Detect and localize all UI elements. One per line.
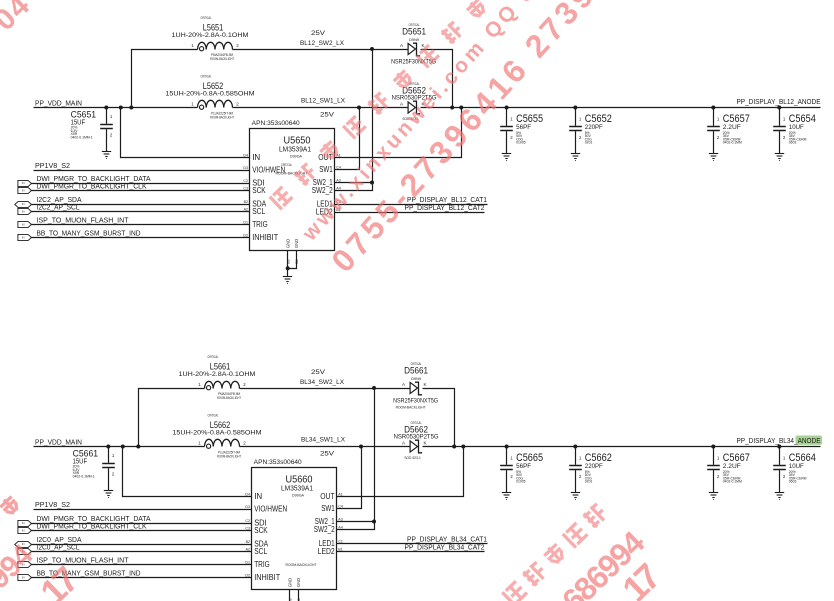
wire net PP_DISPLAY_BL34_CAT1 <box>337 543 488 545</box>
svg-text:SCK: SCK <box>252 186 266 195</box>
svg-text:2: 2 <box>243 382 246 387</box>
svg-text:B1: B1 <box>338 548 342 552</box>
off-page connector I2C2_AP_SDA <box>15 201 32 207</box>
svg-text:IN: IN <box>22 189 25 193</box>
svg-text:15UH-20%-0.8A-0.585OHM: 15UH-20%-0.8A-0.585OHM <box>172 430 261 437</box>
junction <box>505 106 509 110</box>
svg-text:D1: D1 <box>245 561 250 565</box>
junction <box>119 106 123 110</box>
svg-text:17: 17 <box>32 559 86 601</box>
wire riser to BL34_SW2_LX <box>139 389 205 447</box>
diode D5651 <box>408 43 415 54</box>
svg-text:D3: D3 <box>243 166 248 170</box>
svg-text:C5651: C5651 <box>71 110 97 120</box>
svg-text:A2: A2 <box>246 548 250 552</box>
capacitor C5661 <box>102 447 115 491</box>
svg-text:2: 2 <box>510 474 513 479</box>
wire net PP_DISPLAY_BL12_CAT2 <box>335 212 485 214</box>
wire GND pins <box>287 251 289 277</box>
inductor L5662 <box>205 439 240 446</box>
svg-text:IN: IN <box>252 153 260 162</box>
junction <box>372 386 376 390</box>
svg-text:CRITICAL: CRITICAL <box>208 414 219 418</box>
svg-text:2: 2 <box>783 474 786 479</box>
svg-text:PP_DISPLAY_BL34_CAT2: PP_DISPLAY_BL34_CAT2 <box>405 545 485 552</box>
junction <box>461 445 465 449</box>
wire SW1 riser <box>335 108 360 170</box>
ground <box>571 154 580 161</box>
svg-text:C5661: C5661 <box>73 449 99 459</box>
svg-text:IN: IN <box>22 202 25 206</box>
svg-text:25V: 25V <box>311 30 326 37</box>
svg-text:C4: C4 <box>336 166 341 170</box>
svg-text:INHIBIT: INHIBIT <box>252 233 278 242</box>
svg-text:TRIG: TRIG <box>254 560 270 569</box>
svg-text:01005: 01005 <box>516 480 526 484</box>
junction <box>106 445 110 449</box>
svg-text:2: 2 <box>717 135 720 140</box>
svg-text:D99GA: D99GA <box>292 494 305 498</box>
junction <box>452 445 456 449</box>
svg-text:1: 1 <box>510 455 513 460</box>
wire IN feed <box>123 447 252 497</box>
svg-text:0402-0.1MM: 0402-0.1MM <box>723 141 742 145</box>
svg-text:C3: C3 <box>243 187 248 191</box>
wire net DWI_PMGR_TO_BACKLIGHT_CLK <box>32 530 252 532</box>
inductor L5651 <box>198 42 233 49</box>
svg-text:25V: 25V <box>311 369 326 376</box>
ground <box>283 277 292 284</box>
svg-text:D9N9: D9N9 <box>409 38 419 42</box>
wire riser to BL12_SW2_LX <box>132 50 198 108</box>
svg-text:0402-0.1MM-1: 0402-0.1MM-1 <box>73 475 95 479</box>
off-page connector DWI_PMGR_TO_BACKLIGHT_DATA <box>18 180 32 186</box>
svg-text:GND: GND <box>294 239 299 248</box>
svg-text:1: 1 <box>783 455 786 460</box>
watermark bottom-center chinese <box>482 600 507 601</box>
svg-text:0603: 0603 <box>789 141 797 145</box>
wire SW2 pins drop <box>335 50 373 191</box>
svg-text:ISP_TO_MUON_FLASH_INT: ISP_TO_MUON_FLASH_INT <box>37 215 130 224</box>
svg-text:BL34_SW1_LX: BL34_SW1_LX <box>301 437 345 444</box>
wire BL34_SW2_LX rail <box>240 388 411 390</box>
svg-text:1: 1 <box>198 441 201 446</box>
svg-text:IN: IN <box>254 492 262 501</box>
svg-text:A2: A2 <box>244 208 248 212</box>
svg-text:C4: C4 <box>338 505 343 509</box>
off-page connector DWI_PMGR_TO_BACKLIGHT_CLK <box>18 187 32 193</box>
junction <box>104 106 108 110</box>
svg-text:SW2_2: SW2_2 <box>314 525 335 534</box>
junction <box>505 445 509 449</box>
wire net ISP_TO_MUON_FLASH_INT <box>32 224 250 226</box>
svg-text:1: 1 <box>510 116 513 121</box>
svg-text:D5661: D5661 <box>404 366 428 376</box>
svg-text:I2C0_AP_SCL: I2C0_AP_SCL <box>37 542 80 551</box>
svg-text:PP1V8_S2: PP1V8_S2 <box>35 161 70 170</box>
wire net DWI_PMGR_TO_BACKLIGHT_DATA <box>32 183 250 185</box>
wire OUT riser <box>335 108 462 158</box>
svg-text:2: 2 <box>579 474 582 479</box>
ground <box>102 152 111 159</box>
svg-text:1: 1 <box>717 116 720 121</box>
svg-text:PP_DISPLAY_BL34_ANODE: PP_DISPLAY_BL34_ANODE <box>737 438 821 445</box>
svg-text:ROOM-BACKLIGHT: ROOM-BACKLIGHT <box>210 57 234 61</box>
svg-text:2: 2 <box>579 135 582 140</box>
svg-text:C3: C3 <box>245 527 250 531</box>
off-page connector ISP_TO_MUON_FLASH_INT <box>18 561 32 567</box>
svg-text:BL12_SW2_LX: BL12_SW2_LX <box>300 40 344 47</box>
diode D5662 <box>410 441 417 452</box>
svg-text:SCL: SCL <box>252 207 265 216</box>
svg-text:D4: D4 <box>245 493 250 497</box>
watermark chinese line top band <box>270 186 294 210</box>
off-page connector BB_TO_MANY_GSM_BURST_IND <box>18 234 32 240</box>
off-page connector DWI_PMGR_TO_BACKLIGHT_DATA <box>18 520 32 526</box>
svg-text:OUT: OUT <box>320 492 335 501</box>
wire net I2C0_AP_SDA <box>32 544 252 546</box>
junction <box>573 445 577 449</box>
svg-text:PP_DISPLAY_BL12_ANODE: PP_DISPLAY_BL12_ANODE <box>737 99 821 106</box>
svg-text:B2: B2 <box>246 540 250 544</box>
highlight ANODE <box>796 436 823 445</box>
svg-text:IN: IN <box>22 181 25 185</box>
svg-text:2: 2 <box>783 135 786 140</box>
svg-text:IN: IN <box>22 236 25 240</box>
watermark bottom-left chinese <box>0 512 1 537</box>
svg-text:2: 2 <box>243 441 246 446</box>
svg-text:D3: D3 <box>245 505 250 509</box>
capacitor C5657 <box>707 108 720 154</box>
wire net I2C2_AP_SCL <box>32 211 250 213</box>
diode D5652 <box>408 102 415 113</box>
wire net PP_DISPLAY_BL34_CAT2 <box>337 551 485 553</box>
svg-text:SCL: SCL <box>254 547 267 556</box>
svg-text:K: K <box>424 382 428 387</box>
inductor L5652 <box>198 100 233 107</box>
svg-text:2: 2 <box>112 472 115 477</box>
svg-text:IN: IN <box>22 521 25 525</box>
ground <box>775 493 784 500</box>
svg-text:6994: 6994 <box>0 538 40 601</box>
svg-text:ROOM-BACKLIGHT: ROOM-BACKLIGHT <box>286 563 318 567</box>
junction <box>711 445 715 449</box>
junction <box>777 445 781 449</box>
svg-text:01005: 01005 <box>516 141 526 145</box>
svg-text:25V: 25V <box>320 112 335 119</box>
svg-text:DWI_PMGR_TO_BACKLIGHT_CLK: DWI_PMGR_TO_BACKLIGHT_CLK <box>37 181 147 190</box>
svg-text:SCK: SCK <box>254 526 268 535</box>
svg-text:SW1: SW1 <box>319 165 333 174</box>
svg-text:A4: A4 <box>338 526 342 530</box>
svg-text:2: 2 <box>510 135 513 140</box>
svg-text:1: 1 <box>112 453 115 458</box>
junction <box>573 106 577 110</box>
svg-text:L5652: L5652 <box>203 81 224 91</box>
junction <box>450 106 454 110</box>
wire net I2C0_AP_SCL <box>32 551 252 553</box>
svg-text:BB_TO_MANY_GSM_BURST_IND: BB_TO_MANY_GSM_BURST_IND <box>37 228 141 237</box>
svg-text:1: 1 <box>110 114 113 119</box>
off-page connector BB_TO_MANY_GSM_BURST_IND <box>18 574 32 580</box>
svg-text:IN: IN <box>22 223 25 227</box>
svg-text:0201: 0201 <box>585 141 593 145</box>
ground <box>502 493 511 500</box>
svg-text:ROOM-BACKLIGHT: ROOM-BACKLIGHT <box>396 406 426 410</box>
wire net BB_TO_MANY_GSM_BURST_IND <box>32 577 252 579</box>
svg-text:ROOM-BACKLIGHT: ROOM-BACKLIGHT <box>217 396 241 400</box>
svg-text:1: 1 <box>191 102 194 107</box>
svg-text:I2C2_AP_SCL: I2C2_AP_SCL <box>37 202 80 211</box>
svg-text:25V: 25V <box>320 451 335 458</box>
svg-text:D1: D1 <box>243 221 248 225</box>
capacitor C5664 <box>773 447 786 493</box>
svg-text:ROOM-BACKLIGHT: ROOM-BACKLIGHT <box>217 454 241 458</box>
svg-text:DWI_PMGR_TO_BACKLIGHT_CLK: DWI_PMGR_TO_BACKLIGHT_CLK <box>37 521 147 530</box>
wire GND pins <box>289 590 291 601</box>
wire net DWI_PMGR_TO_BACKLIGHT_CLK <box>32 190 250 192</box>
off-page connector ISP_TO_MUON_FLASH_INT <box>18 221 32 227</box>
svg-text:PP_VDD_MAIN: PP_VDD_MAIN <box>35 98 82 107</box>
svg-text:B2: B2 <box>244 200 248 204</box>
off-page connector I2C0_AP_SDA <box>15 541 32 547</box>
svg-text:1: 1 <box>717 455 720 460</box>
capacitor C5654 <box>773 108 786 154</box>
svg-text:A: A <box>400 43 404 48</box>
svg-text:D2: D2 <box>245 574 250 578</box>
svg-text:D5651: D5651 <box>402 27 426 37</box>
ground <box>709 154 718 161</box>
diode D5661 <box>410 382 417 393</box>
svg-text:1: 1 <box>783 116 786 121</box>
svg-text:K: K <box>424 441 428 446</box>
svg-text:SW1: SW1 <box>321 504 335 513</box>
svg-text:L5661: L5661 <box>210 362 231 372</box>
svg-text:A1: A1 <box>338 493 342 497</box>
off-page connector I2C2_AP_SCL <box>18 208 32 214</box>
capacitor C5655 <box>500 108 513 154</box>
svg-text:2: 2 <box>236 102 239 107</box>
svg-text:BL34_SW2_LX: BL34_SW2_LX <box>300 379 344 386</box>
svg-text:SOD-923-1: SOD-923-1 <box>404 456 421 460</box>
svg-text:PP_DISPLAY_BL34_CAT1: PP_DISPLAY_BL34_CAT1 <box>407 537 487 544</box>
junction <box>372 520 376 524</box>
svg-text:1UH-20%-2.8A-0.1OHM: 1UH-20%-2.8A-0.1OHM <box>172 32 249 39</box>
svg-text:NSR25F30NXT5G: NSR25F30NXT5G <box>393 398 438 405</box>
svg-text:LM3539A1: LM3539A1 <box>281 484 313 493</box>
svg-text:D4: D4 <box>243 154 248 158</box>
junction <box>359 445 363 449</box>
junction <box>357 106 361 110</box>
svg-text:A: A <box>402 441 406 446</box>
capacitor C5662 <box>569 447 582 493</box>
ground <box>775 154 784 161</box>
svg-text:CRITICAL: CRITICAL <box>208 355 219 359</box>
wire net DWI_PMGR_TO_BACKLIGHT_DATA <box>32 523 252 525</box>
wire net PP1V8_S2 <box>34 509 252 511</box>
ground <box>709 493 718 500</box>
wire PP_VDD_MAIN rail <box>34 107 198 109</box>
svg-text:A: A <box>400 102 404 107</box>
wire net ISP_TO_MUON_FLASH_INT <box>32 564 252 566</box>
svg-text:1: 1 <box>191 43 194 48</box>
svg-text:0402-0.1MM-1: 0402-0.1MM-1 <box>71 136 93 140</box>
svg-text:GND: GND <box>296 578 301 587</box>
junction <box>121 445 125 449</box>
svg-text:A: A <box>402 382 406 387</box>
junction <box>129 106 133 110</box>
wire net BB_TO_MANY_GSM_BURST_IND <box>32 237 250 239</box>
wire diode D5661 cathode to BL34_SW1_LX <box>423 389 455 447</box>
svg-text:1: 1 <box>579 116 582 121</box>
wire OUT riser <box>337 447 464 497</box>
capacitor C5652 <box>569 108 582 154</box>
svg-text:VIO/HWEN: VIO/HWEN <box>254 505 287 514</box>
svg-text:GND: GND <box>286 239 291 248</box>
svg-text:1: 1 <box>198 382 201 387</box>
svg-text:0402-0.1MM: 0402-0.1MM <box>723 480 742 484</box>
svg-text:C2: C2 <box>245 519 250 523</box>
svg-text:PP_VDD_MAIN: PP_VDD_MAIN <box>35 437 82 446</box>
svg-text:CRITICAL: CRITICAL <box>201 16 212 20</box>
svg-text:GND: GND <box>288 578 293 587</box>
svg-text:LM3539A1: LM3539A1 <box>279 145 311 154</box>
svg-text:D2: D2 <box>243 234 248 238</box>
svg-text:0201: 0201 <box>585 480 593 484</box>
inductor L5661 <box>205 381 240 388</box>
svg-text:C2: C2 <box>243 179 248 183</box>
svg-text:2: 2 <box>110 133 113 138</box>
svg-text:D99GA: D99GA <box>290 155 303 159</box>
off-page connector I2C0_AP_SCL <box>18 548 32 554</box>
junction <box>777 106 781 110</box>
svg-text:CRITICAL: CRITICAL <box>201 75 212 79</box>
svg-text:NSR0530P2T5G: NSR0530P2T5G <box>394 434 439 441</box>
svg-text:TRIG: TRIG <box>252 220 268 229</box>
capacitor C5651 <box>100 108 113 152</box>
svg-text:APN:353s00640: APN:353s00640 <box>254 459 302 466</box>
svg-text:2: 2 <box>236 43 239 48</box>
junction <box>370 47 374 51</box>
capacitor C5665 <box>500 447 513 493</box>
svg-text:IN: IN <box>22 529 25 533</box>
op-amp U5650 (LED driver IC LM3539A1) <box>250 129 335 251</box>
svg-text:ROOM-BACKLIGHT: ROOM-BACKLIGHT <box>210 115 234 119</box>
junction <box>711 106 715 110</box>
svg-text:1UH-20%-2.8A-0.1OHM: 1UH-20%-2.8A-0.1OHM <box>179 371 256 378</box>
wire net I2C2_AP_SDA <box>32 204 250 206</box>
wire SW1 riser <box>337 447 362 509</box>
op-amp U5660 (LED driver IC LM3539A1) <box>252 468 337 590</box>
junction <box>459 106 463 110</box>
svg-text:LED2: LED2 <box>318 547 335 556</box>
wire net PP1V8_S2 <box>34 170 250 172</box>
svg-text:C1: C1 <box>338 540 343 544</box>
svg-text:VIO/HWEN: VIO/HWEN <box>252 166 285 175</box>
svg-text:ISP_TO_MUON_FLASH_INT: ISP_TO_MUON_FLASH_INT <box>37 555 130 564</box>
svg-text:2: 2 <box>717 474 720 479</box>
svg-text:0603: 0603 <box>789 480 797 484</box>
svg-text:BL12_SW1_LX: BL12_SW1_LX <box>301 98 345 105</box>
ground <box>502 154 511 161</box>
wire IN feed <box>121 108 250 158</box>
svg-text:APN:353s00640: APN:353s00640 <box>252 120 300 127</box>
junction <box>370 181 374 185</box>
svg-text:PP1V8_S2: PP1V8_S2 <box>35 500 70 509</box>
svg-text:1: 1 <box>579 455 582 460</box>
svg-text:A3: A3 <box>338 518 342 522</box>
wire SW2 pins drop <box>337 389 375 530</box>
ground <box>104 491 113 498</box>
wire PP_VDD_MAIN rail <box>34 446 205 448</box>
svg-text:IN: IN <box>22 210 25 214</box>
wire net PP_DISPLAY_BL12_CAT1 <box>335 204 488 206</box>
junction <box>136 445 140 449</box>
svg-text:D9N9: D9N9 <box>411 377 421 381</box>
ground <box>571 493 580 500</box>
off-page connector DWI_PMGR_TO_BACKLIGHT_CLK <box>18 527 32 533</box>
svg-text:15UH-20%-0.8A-0.585OHM: 15UH-20%-0.8A-0.585OHM <box>165 91 254 98</box>
wire diode D5651 cathode to BL12_SW1_LX <box>421 50 453 108</box>
svg-text:04: 04 <box>0 0 37 37</box>
svg-text:INHIBIT: INHIBIT <box>254 573 280 582</box>
wire BL12_SW2_LX rail <box>233 49 409 51</box>
capacitor C5667 <box>707 447 720 493</box>
svg-text:PP_DISPLAY_BL12_CAT2: PP_DISPLAY_BL12_CAT2 <box>405 205 485 212</box>
svg-text:L5662: L5662 <box>210 420 231 430</box>
svg-text:L5651: L5651 <box>203 23 224 33</box>
junction <box>286 266 290 270</box>
svg-text:NSR25F30NXT5G: NSR25F30NXT5G <box>391 59 436 66</box>
